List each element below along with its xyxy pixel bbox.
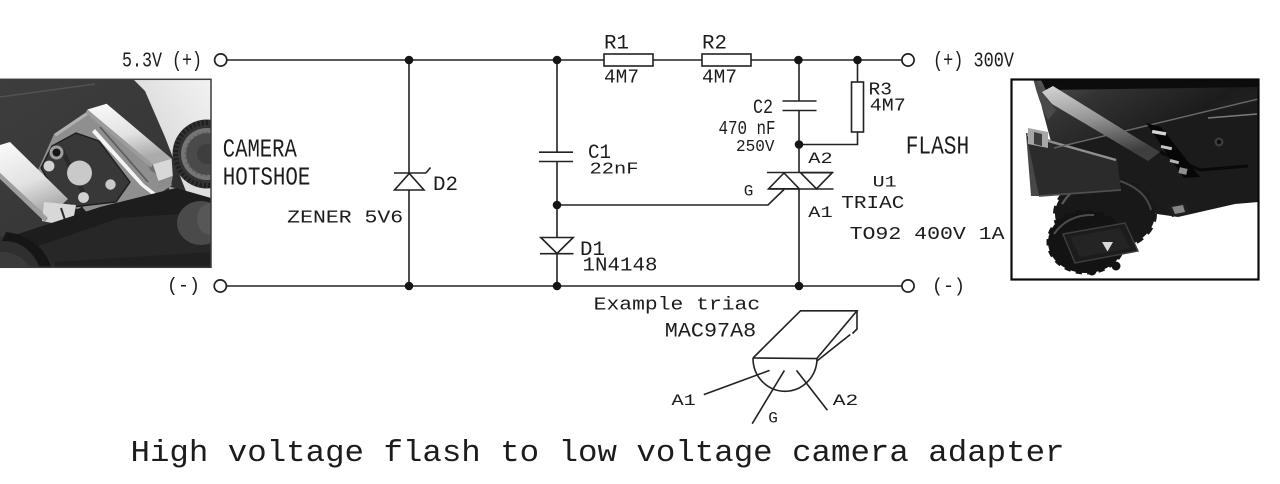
svg-text:470 nF: 470 nF [719,118,776,140]
svg-text:4M7: 4M7 [870,97,906,117]
wire top rail between R1 and R2 [653,59,702,61]
blade top dark strip [1040,78,1259,90]
terminal 300V plus [902,54,914,66]
svg-text:U1: U1 [873,174,897,192]
junction node top D2 [405,56,414,65]
svg-text:HOTSHOE: HOTSHOE [223,162,311,192]
wire C1 to D1 [556,162,558,238]
diode D1 [540,238,574,254]
scale marking mid [1161,145,1172,150]
wire C2 branch upper [798,60,800,101]
contact plate big hole [67,161,92,186]
wire top rail left segment [227,59,605,61]
zener diode D2 [394,168,431,191]
svg-text:R1: R1 [604,32,629,55]
wire R3 bottom [799,132,858,145]
svg-text:5.3V (+): 5.3V (+) [122,51,202,74]
scale knob [1178,167,1187,175]
right rail bright [87,104,171,165]
bottom shadow band [55,252,211,268]
svg-text:(-): (-) [932,276,965,298]
left rail side shade [0,173,48,222]
blade corner curve [1033,78,1056,120]
mode dial knurled [173,120,242,189]
svg-text:G: G [768,409,778,427]
front face dark [0,190,211,268]
svg-text:Example triac: Example triac [594,296,761,316]
junction node bottom D2 [405,282,414,291]
wheel upper rim highlight [1062,179,1112,204]
flash foot bottom edge [1039,190,1121,196]
blade top surface [1036,78,1259,149]
svg-text:MAC97A8: MAC97A8 [665,320,756,343]
spring clip shadow [100,127,148,182]
junction node bottom triac [795,282,804,291]
scale marking low [1170,159,1179,164]
distance scale strip [1146,123,1200,178]
svg-text:G: G [744,182,754,200]
photo left border [0,79,211,267]
plate center groove [62,150,84,194]
white triangle mark [1102,242,1113,252]
serrated plate bottom edge [58,200,115,223]
right rail side shade [86,110,153,168]
svg-text:ZENER 5V6: ZENER 5V6 [287,208,403,228]
resistor R2 [702,54,751,66]
junction node gate [553,201,562,210]
svg-text:4M7: 4M7 [604,67,639,89]
svg-text:(+) 300V: (+) 300V [933,51,1014,74]
shoe plate inner shade [140,143,172,185]
flash foot front face [1026,133,1121,196]
spring clip bright [92,129,157,197]
wire node to triac A2 [798,145,800,173]
right rail end hook [153,159,173,181]
wire D1 to bottom rail [556,254,558,287]
blurred body blob right [177,201,225,245]
light backdrop top right [133,79,211,201]
body top edge highlight [0,84,95,97]
wire triac A1 to bottom rail [798,189,800,286]
wire top rail right segment [751,59,902,61]
wire R3 top [857,60,859,82]
junction node top C2 [794,56,803,65]
front face diagonal edge [0,188,211,258]
triac package body TO92 [753,311,857,392]
right notch slot [1168,202,1190,217]
contact plate small hole 3 [105,179,115,189]
photo right border [1012,80,1259,280]
svg-text:D2: D2 [433,174,458,197]
junction node top R3 [853,56,862,65]
svg-text:1N4148: 1N4148 [583,255,658,277]
leader line A2 [797,370,828,410]
contact plate small hole 1 [44,161,55,172]
plate inner shade [1070,228,1130,257]
camera body background [0,79,211,268]
strap lug curves bottom left [0,237,55,268]
svg-text:C2: C2 [753,97,773,120]
svg-text:A1: A1 [808,204,832,222]
leader line A1 [704,370,770,394]
wire bottom rail [227,285,903,287]
svg-text:R2: R2 [702,32,727,55]
locking wheel upper serrated [1055,178,1155,250]
panel specular line right [1208,114,1257,118]
shoe plate top edge highlight [54,111,90,137]
svg-text:TO92 400V 1A: TO92 400V 1A [850,225,1005,245]
terminal minus left [214,280,226,292]
left rail foot [42,202,76,227]
locking wheel lower serrated [1048,211,1124,273]
svg-text:TRIAC: TRIAC [841,194,904,214]
svg-text:FLASH: FLASH [906,131,970,161]
svg-text:4M7: 4M7 [702,67,737,89]
scale marking 100S [1152,130,1166,136]
wheel lower rim highlight [1054,215,1094,234]
svg-text:(-): (-) [167,275,200,297]
svg-text:250V: 250V [736,138,775,157]
wire gate [557,190,784,206]
triac U1 [767,173,834,190]
junction node C2-R3 [795,140,804,149]
panel seam [1160,152,1248,170]
wire C1 branch upper [556,60,558,152]
svg-text:A1: A1 [672,392,696,410]
wire D2 branch lower [408,190,410,286]
backdrop shadow under dial [168,186,211,207]
svg-text:A2: A2 [833,392,859,410]
foot small pins bottom [1088,267,1097,276]
main flash body mass [1048,90,1259,217]
flash foot left face [1026,133,1040,196]
wire D2 branch upper [408,60,410,173]
left rail foot tick [61,208,65,220]
blade bottom specular edge [1054,99,1258,148]
dark contact plate [41,133,130,208]
wire C2 to node [798,111,800,145]
svg-text:22nF: 22nF [590,161,639,180]
svg-text:A2: A2 [808,150,832,168]
flash foot top edge [1027,135,1116,160]
capacitor C1 [539,152,573,161]
terminal minus right [902,280,914,292]
shoe base gray plate [38,111,172,222]
resistor R1 [604,54,653,66]
square mounting plate [1063,223,1138,263]
leader line G [752,370,784,423]
junction node bottom D1 [553,282,562,291]
screw on body [1215,138,1224,147]
capacitor C2 [783,101,817,111]
terminal 5.3V plus [215,54,227,66]
resistor R3 [852,82,864,132]
blade bevel bright band [1042,86,1160,161]
svg-text:CAMERA: CAMERA [223,135,297,165]
svg-text:High voltage flash to low volt: High voltage flash to low voltage camera… [131,436,1065,471]
junction node top C1 [553,56,562,65]
left rail bright [0,142,68,218]
contact plate ring hole [50,146,64,160]
flash foot left tab [1028,128,1048,148]
contact plate small hole 2 [78,192,89,203]
